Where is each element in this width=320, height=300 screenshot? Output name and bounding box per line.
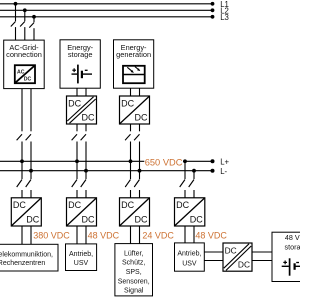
svg-text:DC: DC xyxy=(121,98,134,108)
wire converter 3 to load (L+) xyxy=(130,226,132,244)
svg-text:650 VDC: 650 VDC xyxy=(145,157,183,167)
switch load branch 4 L+ blade xyxy=(180,180,185,188)
wire AC-grid L+ feeder upper xyxy=(21,89,23,132)
battery BT2 icon xyxy=(282,258,302,275)
wire converter 2 to load (L+) xyxy=(76,226,78,244)
wire converter 2 to load (L-) xyxy=(85,226,87,244)
wire switch S2 to AC-grid box xyxy=(24,27,26,40)
load box drive UPS 2 xyxy=(66,244,97,271)
node junction L+ col2 xyxy=(75,159,79,163)
wire load branch 4 L- from bus xyxy=(193,171,195,179)
switch S1 blade xyxy=(11,22,16,27)
energy storage box xyxy=(60,40,100,88)
load box drive UPS 4 xyxy=(175,243,205,271)
48 VDC storage box xyxy=(272,232,320,281)
svg-text:DC: DC xyxy=(24,76,32,82)
svg-text:DC: DC xyxy=(238,260,250,270)
wire generation box to U3 (right) xyxy=(139,88,141,96)
switch load branch 1 L- blade (below bus) xyxy=(26,180,31,188)
switch load branch 2 L- blade (below bus) xyxy=(81,180,86,188)
svg-text:DC: DC xyxy=(26,215,39,225)
wire L1 phase line xyxy=(0,3,213,5)
svg-text:DC: DC xyxy=(176,200,189,210)
svg-text:380 VDC: 380 VDC xyxy=(33,231,70,241)
svg-text:L-: L- xyxy=(220,167,227,176)
svg-text:DC: DC xyxy=(82,215,95,225)
wire converter 1 to load (L+) xyxy=(21,226,23,244)
node junction L+ col3 xyxy=(129,159,133,163)
DC/DC converter U2 (bidirectional, storage) xyxy=(67,96,97,124)
node L1 terminal xyxy=(211,2,215,6)
switch S2 blade xyxy=(20,22,25,27)
svg-text:AC: AC xyxy=(17,70,25,76)
switch generation L+ blade (above bus) xyxy=(125,134,130,140)
wire AC-grid L+ feeder to bus and load branch xyxy=(21,142,23,180)
switch load branch 3 L- blade (below bus) xyxy=(134,180,139,188)
wire converter 4 to load (L+) xyxy=(184,226,186,243)
PV panel icon xyxy=(123,66,145,83)
wire load branch 3 L- to converter xyxy=(139,190,141,198)
wire storage L- feeder upper xyxy=(85,124,87,131)
node bus L- terminal xyxy=(211,169,215,173)
svg-text:Rechenzentren: Rechenzentren xyxy=(0,260,45,267)
wire load branch 4 L+ to converter xyxy=(184,190,186,198)
switch storage L+ blade (above bus) xyxy=(72,134,77,140)
switch generation L- blade (above bus) xyxy=(134,134,139,140)
wire storage box to U2 (right) xyxy=(85,88,87,96)
wire U8 to 48V storage upper xyxy=(252,251,272,253)
svg-text:Sensoren,: Sensoren, xyxy=(118,278,150,285)
switch load branch 3 L+ blade (below bus) xyxy=(125,180,130,188)
switch load branch 1 L+ blade (below bus) xyxy=(17,180,22,188)
svg-text:SPS,: SPS, xyxy=(126,269,142,276)
AC grid connection box xyxy=(4,40,45,89)
wire load branch 2 L+ to converter xyxy=(76,190,78,198)
wire generation L- feeder to bus and load branch xyxy=(139,142,141,180)
wire converter 3 to load (L-) xyxy=(139,226,141,244)
wire converter 1 to load (L-) xyxy=(30,226,32,244)
wire switch S3 to AC-grid box xyxy=(33,28,35,40)
svg-text:Lüfter,: Lüfter, xyxy=(124,250,144,257)
svg-text:connection: connection xyxy=(6,50,42,59)
wire load branch 4 L- to converter xyxy=(193,190,195,198)
DC/DC converter U7 (48 VDC) xyxy=(175,198,205,226)
DC/DC converter U3 (generation) xyxy=(120,96,150,124)
label 650 VDC background xyxy=(144,156,183,167)
bus L- 650 VDC xyxy=(0,170,213,172)
svg-text:storage: storage xyxy=(285,242,300,251)
switch AC-grid L+ blade (above bus) xyxy=(17,134,22,140)
svg-text:DC: DC xyxy=(13,200,26,210)
svg-text:DC: DC xyxy=(225,245,237,255)
AC/DC converter U1 xyxy=(15,65,35,83)
svg-text:DC: DC xyxy=(121,200,134,210)
node junction L+ col4 xyxy=(183,159,187,163)
svg-text:L3: L3 xyxy=(220,13,229,22)
DC/DC converter U6 (24 VDC) xyxy=(120,198,150,226)
node bus L+ terminal xyxy=(211,159,215,163)
switch S3 blade xyxy=(29,23,34,28)
node phase tap 3 xyxy=(32,15,36,19)
svg-text:DC: DC xyxy=(68,98,81,108)
DC/DC converter U4 (380 VDC) xyxy=(11,198,41,226)
wire storage box to U2 (left) xyxy=(76,88,78,96)
energy generation box xyxy=(114,40,154,88)
svg-text:48 VDC: 48 VDC xyxy=(285,233,300,242)
load box small loads xyxy=(115,244,153,296)
svg-text:24 VDC: 24 VDC xyxy=(142,231,174,241)
wire AC-grid L- feeder to bus and load branch xyxy=(30,142,32,180)
wire box4 to U8 lower xyxy=(204,260,223,262)
svg-text:DC: DC xyxy=(190,215,203,225)
svg-text:Antrieb,: Antrieb, xyxy=(69,251,93,258)
wire load branch 1 L+ to converter xyxy=(21,190,23,198)
node junction L- col4 xyxy=(192,169,196,173)
svg-text:Antrieb,: Antrieb, xyxy=(177,251,201,258)
svg-text:Schütz,: Schütz, xyxy=(122,260,145,267)
node junction L- col1 xyxy=(29,169,33,173)
node junction L- col3 xyxy=(138,169,142,173)
svg-text:DC: DC xyxy=(135,215,148,225)
wire generation L- feeder upper xyxy=(139,124,141,131)
wire phase drop 2 xyxy=(24,10,26,21)
wire load branch 1 L- to converter xyxy=(30,190,32,198)
wire generation box to U3 (left) xyxy=(130,88,132,96)
switch storage L- blade (above bus) xyxy=(81,134,86,140)
node junction L- col2 xyxy=(84,169,88,173)
wire AC-grid L- feeder upper xyxy=(30,89,32,132)
wire generation L+ feeder upper xyxy=(130,124,132,131)
svg-text:DC: DC xyxy=(135,113,148,123)
svg-text:DC: DC xyxy=(82,113,95,123)
node phase tap 2 xyxy=(23,8,27,12)
DC/DC converter U5 (48 VDC) xyxy=(67,198,97,226)
wire storage L+ feeder upper xyxy=(76,124,78,131)
svg-text:Signal: Signal xyxy=(124,288,144,295)
wire storage L+ feeder to bus and load branch xyxy=(76,142,78,180)
wire load branch 3 L+ to converter xyxy=(130,190,132,198)
load box telecom xyxy=(0,244,58,271)
node L3 terminal xyxy=(211,15,215,19)
switch AC-grid L- blade (above bus) xyxy=(26,134,31,140)
wire phase drop 1 xyxy=(15,4,17,21)
svg-text:L+: L+ xyxy=(220,157,229,166)
wire load branch 2 L- to converter xyxy=(85,190,87,198)
svg-text:storage: storage xyxy=(68,50,93,59)
wire phase drop 3 xyxy=(33,17,35,23)
wire storage L- feeder to bus and load branch xyxy=(85,142,87,180)
svg-text:Telekommuniktion,: Telekommuniktion, xyxy=(0,251,53,258)
wire converter 4 to load (L-) xyxy=(193,226,195,243)
svg-text:48 VDC: 48 VDC xyxy=(88,231,120,241)
wire L3 phase line xyxy=(0,16,213,18)
wire U8 to 48V storage lower xyxy=(252,260,272,262)
wire switch S1 to AC-grid box xyxy=(15,27,17,40)
svg-text:USV: USV xyxy=(74,260,89,267)
switch load branch 4 L- blade xyxy=(189,180,194,188)
wire load branch 4 L+ from bus xyxy=(184,161,186,179)
node junction L+ col1 xyxy=(20,159,24,163)
svg-text:generation: generation xyxy=(116,50,151,59)
node phase tap 1 xyxy=(14,2,18,6)
bus L+ 650 VDC xyxy=(0,160,213,162)
svg-text:48 VDC: 48 VDC xyxy=(195,231,227,241)
wire L2 phase line xyxy=(0,9,213,11)
svg-text:DC: DC xyxy=(68,200,81,210)
wire box4 to U8 upper xyxy=(204,251,223,253)
DC/DC converter U8 (bidirectional, 48V storage) xyxy=(223,243,252,271)
battery BT1 icon xyxy=(72,65,93,84)
switch load branch 2 L+ blade (below bus) xyxy=(72,180,77,188)
wire generation L+ feeder to bus and load branch xyxy=(130,142,132,180)
node L2 terminal xyxy=(211,8,215,12)
svg-text:USV: USV xyxy=(182,260,197,267)
